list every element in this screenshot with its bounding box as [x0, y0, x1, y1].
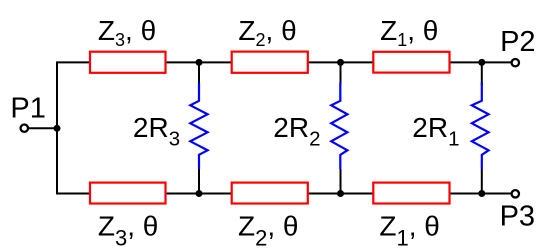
wire resistor branch 2 (black)	[340, 62, 342, 193]
node junction P1	[54, 125, 61, 132]
label Z2 theta (top)	[238, 15, 296, 50]
svg-text:2R2: 2R2	[273, 112, 320, 151]
svg-text:Z3, θ: Z3, θ	[98, 210, 158, 250]
wire bottom rail	[57, 193, 512, 195]
svg-text:2R1: 2R1	[412, 112, 459, 151]
label P1	[10, 92, 45, 124]
resistor 2R3 (blue zigzag)	[190, 83, 207, 170]
label 2R1	[412, 112, 459, 151]
label P3	[500, 201, 535, 233]
label Z3 theta (top)	[98, 15, 156, 50]
label Z1 theta (bottom)	[379, 210, 440, 250]
label P2	[500, 26, 535, 58]
svg-text:P1: P1	[10, 92, 45, 124]
transmission line Z2 (bottom box)	[232, 183, 308, 204]
svg-text:Z3, θ: Z3, θ	[98, 15, 156, 50]
node junction bottom 2	[337, 190, 344, 197]
label Z1 theta (top)	[380, 15, 438, 50]
wire P1 stub	[27, 127, 58, 129]
svg-text:2R3: 2R3	[133, 112, 180, 151]
resistor 2R2 (blue zigzag)	[331, 83, 347, 170]
wire resistor branch 1 (black)	[198, 62, 200, 193]
label Z2 theta (bottom)	[238, 210, 299, 250]
node junction top 2	[337, 59, 344, 66]
svg-text:Z1, θ: Z1, θ	[380, 15, 438, 50]
wire left vertical	[56, 61, 58, 194]
node junction bottom 3	[478, 190, 485, 197]
resistor 2R1 (blue zigzag)	[472, 83, 489, 170]
svg-text:Z2, θ: Z2, θ	[238, 210, 299, 250]
node junction top 1	[196, 59, 203, 66]
wire resistor branch 3 (black)	[481, 62, 483, 193]
svg-text:P3: P3	[500, 201, 535, 233]
label 2R3	[133, 112, 180, 151]
wire top rail	[57, 61, 512, 63]
label 2R2	[273, 112, 320, 151]
port P1 terminal circle	[21, 125, 28, 132]
transmission line Z3 (bottom box)	[90, 183, 166, 204]
port P2 terminal circle	[512, 59, 519, 66]
transmission line Z1 (bottom box)	[373, 183, 449, 204]
port P3 terminal circle	[512, 190, 519, 197]
svg-text:Z1, θ: Z1, θ	[379, 210, 440, 250]
svg-text:P2: P2	[500, 26, 535, 58]
transmission line Z2 (top box)	[232, 52, 308, 73]
transmission line Z3 (top box)	[90, 52, 166, 73]
transmission line Z1 (top box)	[373, 52, 449, 73]
node junction top 3	[478, 59, 485, 66]
svg-text:Z2, θ: Z2, θ	[238, 15, 296, 50]
node junction bottom 1	[196, 190, 203, 197]
label Z3 theta (bottom)	[98, 210, 158, 250]
